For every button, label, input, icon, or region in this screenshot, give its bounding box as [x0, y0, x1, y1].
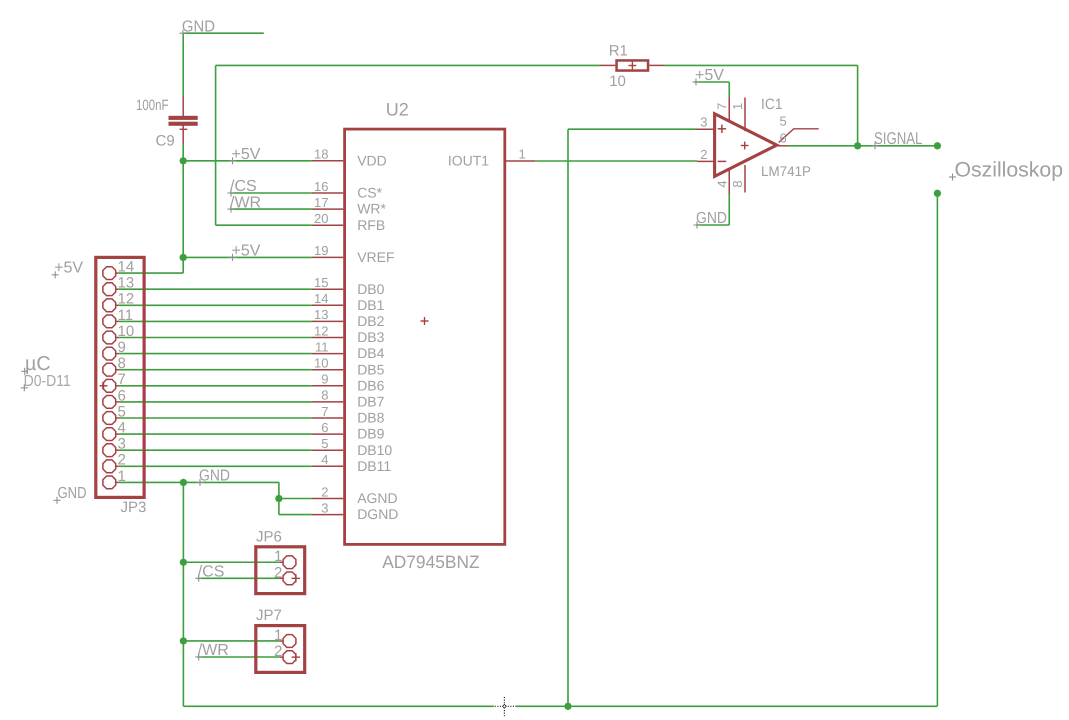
- svg-text:6: 6: [118, 387, 126, 404]
- svg-text:5: 5: [780, 113, 787, 128]
- svg-text:12: 12: [118, 291, 135, 308]
- svg-text:18: 18: [314, 147, 328, 162]
- svg-text:SIGNAL: SIGNAL: [874, 129, 922, 148]
- svg-text:10: 10: [609, 73, 626, 90]
- svg-text:Oszilloskop: Oszilloskop: [955, 158, 1064, 181]
- svg-text:1: 1: [519, 147, 526, 162]
- svg-text:WR*: WR*: [357, 201, 386, 217]
- svg-text:2: 2: [700, 147, 707, 162]
- svg-text:2: 2: [274, 564, 282, 581]
- svg-text:DGND: DGND: [357, 506, 398, 522]
- svg-text:R1: R1: [609, 42, 628, 59]
- svg-text:13: 13: [314, 307, 328, 322]
- svg-text:DB11: DB11: [357, 458, 391, 474]
- svg-text:9: 9: [118, 339, 126, 356]
- svg-text:17: 17: [314, 195, 328, 210]
- svg-text:DB0: DB0: [357, 281, 384, 297]
- svg-text:6: 6: [780, 131, 787, 146]
- svg-text:12: 12: [314, 323, 328, 338]
- svg-text:8: 8: [321, 388, 328, 403]
- svg-text:DB9: DB9: [357, 426, 384, 442]
- svg-text:4: 4: [118, 420, 126, 437]
- svg-text:VREF: VREF: [357, 249, 394, 265]
- svg-text:1: 1: [730, 103, 745, 110]
- svg-text:3: 3: [321, 500, 328, 515]
- svg-text:10: 10: [314, 356, 328, 371]
- svg-text:7: 7: [321, 404, 328, 419]
- svg-text:/WR: /WR: [198, 642, 229, 659]
- svg-text:µC: µC: [25, 353, 51, 375]
- svg-text:DB5: DB5: [357, 361, 384, 377]
- svg-text:DB6: DB6: [357, 377, 384, 393]
- svg-text:DB2: DB2: [357, 313, 384, 329]
- svg-text:13: 13: [118, 275, 135, 292]
- svg-text:19: 19: [314, 243, 328, 258]
- svg-text:D0-D11: D0-D11: [24, 373, 71, 390]
- svg-text:GND: GND: [58, 485, 87, 502]
- svg-text:2: 2: [274, 643, 282, 660]
- svg-text:RFB: RFB: [357, 217, 385, 233]
- svg-text:15: 15: [314, 275, 328, 290]
- svg-text:7: 7: [714, 103, 729, 110]
- svg-text:9: 9: [321, 372, 328, 387]
- svg-text:8: 8: [730, 180, 745, 187]
- svg-text:/WR: /WR: [230, 194, 261, 211]
- svg-text:GND: GND: [199, 468, 230, 485]
- svg-text:U2: U2: [386, 99, 409, 119]
- svg-text:LM741P: LM741P: [761, 163, 811, 179]
- svg-text:1: 1: [274, 548, 282, 565]
- svg-text:2: 2: [118, 452, 126, 469]
- svg-text:5: 5: [118, 403, 126, 420]
- svg-text:11: 11: [118, 307, 134, 324]
- svg-text:AD7945BNZ: AD7945BNZ: [382, 552, 479, 572]
- svg-text:3: 3: [118, 436, 126, 453]
- svg-text:JP6: JP6: [256, 528, 282, 545]
- svg-text:C9: C9: [156, 133, 175, 150]
- svg-text:5: 5: [321, 436, 328, 451]
- svg-text:IC1: IC1: [761, 96, 783, 113]
- svg-text:+5V: +5V: [54, 260, 83, 277]
- svg-text:14: 14: [118, 259, 135, 276]
- svg-text:JP7: JP7: [256, 607, 282, 624]
- svg-text:VDD: VDD: [357, 152, 387, 168]
- svg-text:DB3: DB3: [357, 329, 384, 345]
- svg-text:1: 1: [118, 468, 126, 485]
- svg-text:CS*: CS*: [357, 185, 382, 201]
- svg-text:JP3: JP3: [121, 499, 147, 516]
- svg-text:DB1: DB1: [357, 297, 384, 313]
- svg-text:2: 2: [321, 484, 328, 499]
- svg-text:7: 7: [118, 371, 126, 388]
- svg-text:GND: GND: [182, 18, 215, 35]
- svg-text:DB7: DB7: [357, 394, 384, 410]
- svg-text:DB10: DB10: [357, 442, 392, 458]
- svg-text:4: 4: [321, 452, 328, 467]
- svg-text:100nF: 100nF: [136, 97, 169, 114]
- svg-text:14: 14: [314, 291, 328, 306]
- svg-text:GND: GND: [696, 210, 727, 227]
- svg-text:16: 16: [314, 179, 328, 194]
- svg-text:8: 8: [118, 355, 126, 372]
- svg-text:6: 6: [321, 420, 328, 435]
- svg-text:DB4: DB4: [357, 345, 384, 361]
- svg-text:AGND: AGND: [357, 490, 397, 506]
- svg-text:20: 20: [314, 211, 328, 226]
- svg-text:4: 4: [714, 180, 729, 187]
- svg-text:IOUT1: IOUT1: [448, 153, 489, 169]
- svg-text:DB8: DB8: [357, 410, 384, 426]
- svg-text:3: 3: [700, 115, 707, 130]
- svg-text:10: 10: [118, 323, 135, 340]
- svg-text:11: 11: [315, 339, 329, 354]
- svg-text:1: 1: [274, 627, 282, 644]
